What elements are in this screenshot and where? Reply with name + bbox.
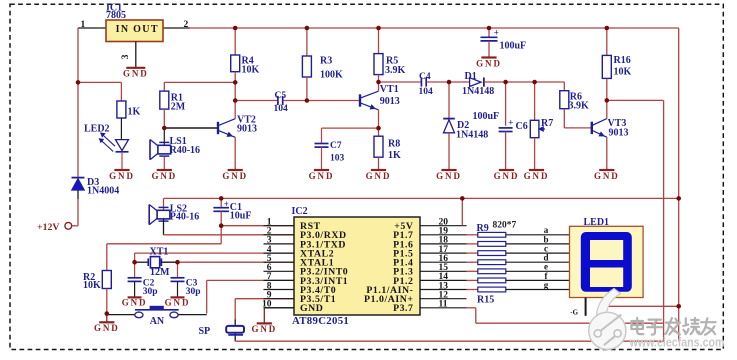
svg-text:GND: GND (123, 69, 149, 79)
svg-text:GND: GND (165, 298, 191, 308)
svg-text:10K: 10K (242, 65, 260, 76)
svg-text:2M: 2M (171, 102, 186, 113)
svg-text:GND: GND (151, 171, 177, 181)
svg-text:R16: R16 (614, 55, 631, 66)
svg-text:1K: 1K (128, 107, 141, 118)
svg-text:VT1: VT1 (380, 84, 399, 95)
svg-text:GND: GND (476, 58, 502, 68)
svg-text:C5: C5 (275, 91, 287, 101)
svg-text:AT89C2051: AT89C2051 (292, 315, 349, 327)
svg-text:g: g (544, 280, 549, 290)
svg-text:3.9K: 3.9K (569, 101, 590, 112)
svg-text:1N4148: 1N4148 (456, 129, 488, 140)
svg-text:GND: GND (594, 171, 620, 181)
svg-text:GND: GND (122, 298, 148, 308)
svg-text:12M: 12M (150, 267, 170, 278)
svg-text:R8: R8 (388, 138, 400, 149)
svg-text:3.9K: 3.9K (385, 65, 406, 76)
svg-text:820*7: 820*7 (493, 221, 517, 231)
svg-text:10uF: 10uF (230, 210, 252, 221)
svg-text:R9: R9 (477, 223, 489, 234)
svg-text:OUT: OUT (133, 24, 159, 35)
svg-text:+12V: +12V (37, 222, 59, 233)
svg-text:100uF: 100uF (473, 111, 500, 122)
svg-text:GND: GND (366, 171, 392, 181)
svg-text:GND: GND (494, 171, 520, 181)
svg-text:10K: 10K (614, 66, 632, 77)
svg-text:3: 3 (121, 54, 131, 59)
svg-text:10K: 10K (83, 280, 101, 291)
svg-text:P40-16: P40-16 (170, 212, 199, 223)
svg-text:11: 11 (439, 300, 448, 310)
svg-text:GND: GND (300, 303, 323, 314)
svg-text:www.elecfans.com: www.elecfans.com (629, 335, 725, 350)
svg-text:AN: AN (150, 316, 165, 327)
svg-text:LED1: LED1 (584, 217, 610, 228)
svg-text:GND: GND (309, 171, 335, 181)
svg-text:GND: GND (94, 323, 120, 333)
svg-text:XT1: XT1 (150, 246, 169, 257)
svg-text:SP: SP (199, 326, 211, 337)
svg-text:R3: R3 (320, 55, 332, 66)
svg-text:1K: 1K (388, 150, 401, 161)
svg-text:IC2: IC2 (292, 206, 308, 217)
svg-text:104: 104 (419, 87, 434, 97)
svg-text:7805: 7805 (106, 10, 126, 21)
svg-text:103: 103 (330, 154, 345, 164)
svg-text:D1: D1 (465, 71, 477, 82)
svg-text:R7: R7 (541, 118, 553, 129)
svg-text:GND: GND (109, 171, 135, 181)
svg-text:R15: R15 (477, 295, 494, 306)
svg-text:-G: -G (570, 309, 578, 317)
svg-text:C7: C7 (330, 141, 342, 151)
svg-text:30p: 30p (143, 287, 158, 297)
svg-text:+: + (494, 27, 499, 37)
svg-text:C4: C4 (419, 72, 431, 82)
svg-text:1N4004: 1N4004 (87, 185, 119, 196)
svg-text:+: + (508, 117, 513, 127)
svg-text:100K: 100K (320, 70, 343, 81)
svg-text:R40-16: R40-16 (170, 145, 201, 156)
svg-text:104: 104 (274, 104, 289, 114)
svg-text:2: 2 (184, 20, 189, 30)
svg-text:GND: GND (251, 324, 277, 334)
svg-text:C6: C6 (516, 121, 528, 132)
svg-text:9013: 9013 (237, 123, 257, 134)
svg-text:GND: GND (222, 171, 248, 181)
svg-text:10: 10 (262, 300, 272, 310)
svg-text:30p: 30p (186, 287, 201, 297)
svg-text:GND: GND (436, 171, 462, 181)
svg-text:LED2: LED2 (84, 123, 110, 134)
svg-text:1N4148: 1N4148 (462, 86, 494, 97)
svg-text:9013: 9013 (380, 96, 400, 107)
svg-text:IN: IN (116, 24, 130, 35)
svg-text:GND: GND (524, 171, 550, 181)
svg-text:1: 1 (81, 20, 86, 30)
svg-text:9013: 9013 (609, 128, 629, 139)
svg-text:100uF: 100uF (500, 40, 527, 51)
svg-text:P3.7: P3.7 (393, 303, 413, 314)
